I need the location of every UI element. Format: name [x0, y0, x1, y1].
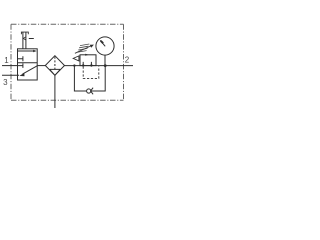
bypass line with check valve: [74, 66, 105, 91]
pressure gauge G1 needle: [100, 40, 105, 46]
wire filter to regulator to port 2: [65, 65, 134, 67]
pressure gauge G1 dial: [96, 37, 114, 55]
svg-text:1: 1: [4, 56, 9, 65]
regulator R1 flow arrow on top edge: [85, 54, 89, 56]
regulator R1 bypass tap junction: [73, 64, 75, 66]
regulator R1 spring: [77, 44, 89, 52]
filter F1 diamond body: [45, 56, 64, 76]
valve V1 push-pull button cap: [21, 32, 28, 34]
regulator R1 vent triangle (relieving): [73, 56, 79, 61]
filter F1 element (dashed): [54, 57, 56, 70]
enclosure frame (dash-dot assembly border): [11, 24, 124, 100]
check valve seat: [91, 88, 94, 95]
regulator R1 seat stubs with junction dots: [83, 62, 91, 66]
regulator R1 body: [80, 55, 96, 66]
svg-text:3: 3: [3, 78, 8, 87]
valve V1 detent mark: [29, 38, 34, 40]
pressure gauge G1 stem: [104, 55, 106, 66]
check valve ball: [87, 89, 91, 93]
wire valve to filter: [37, 65, 45, 67]
port 3 line: [2, 74, 19, 76]
junction dot gauge / bypass: [104, 64, 107, 67]
svg-text:2: 2: [125, 56, 130, 65]
valve V1 bottom position blocked port: [18, 63, 23, 68]
filter F1 water separator: [50, 69, 61, 75]
valve V1 exhaust path diagonal with arrow: [19, 66, 37, 77]
regulator R1 adjustment arrow: [75, 45, 94, 54]
port 1 line: [2, 65, 18, 67]
valve V1 detent notch: [23, 37, 26, 40]
regulator R1 pilot line (dashed): [83, 66, 99, 78]
valve V1 manual actuator stem: [23, 32, 26, 49]
valve V1 top position blocked port: [18, 56, 23, 61]
filter F1 condensate drain line: [54, 75, 56, 108]
valve V1 body: [18, 49, 38, 80]
valve V1 top position flow arrow: [18, 50, 37, 52]
